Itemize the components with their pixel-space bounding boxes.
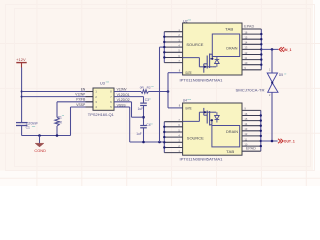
pin 1 U2 (164, 31, 182, 33)
svg-text:DRAIN: DRAIN (226, 130, 239, 134)
wire upper source bus (163, 32, 165, 63)
wire R2 to gate node (149, 91, 169, 93)
pin 2 U4 (164, 147, 182, 149)
wire common source vertical (160, 46, 165, 48)
svg-text:TAB: TAB (226, 150, 235, 154)
pin 5 U4 (164, 131, 182, 133)
wire V12NP (22, 96, 93, 98)
ground CGND (38, 134, 41, 137)
wire pin7 (114, 96, 144, 98)
svg-text:1uF: 1uF (138, 107, 144, 111)
pin 11 U2 (242, 59, 261, 61)
pin 12 U4 (242, 135, 261, 137)
pin 15 U4 (242, 120, 261, 122)
pin 7 U4 (164, 121, 182, 123)
mosfet glyph U2 (206, 56, 208, 69)
pin 16 U2 (242, 33, 261, 35)
svg-text:TPS2H160-Q1: TPS2H160-Q1 (88, 113, 114, 117)
pin 14 U2 (242, 43, 261, 45)
pin 16 U4 (242, 115, 261, 117)
drain plate U4 (212, 126, 240, 147)
pin 1 U4 (164, 152, 182, 154)
svg-text:DRAIN: DRAIN (226, 46, 238, 50)
wire pin6 (114, 101, 132, 103)
svg-text:TAB: TAB (225, 28, 234, 32)
svg-text:EPAD: EPAD (246, 147, 257, 151)
pin 9 U4 (242, 109, 261, 111)
resistor R1 20K (56, 102, 58, 118)
wire TVS top (271, 49, 273, 73)
svg-text:SOURCE: SOURCE (186, 43, 204, 47)
sheet border (6, 5, 315, 171)
pin 7 U2 (164, 62, 182, 64)
wire PXFB (57, 101, 93, 103)
op-amp U3 (TPS2H160-Q1 switch) (93, 88, 114, 110)
wire upper drain bus (260, 29, 262, 70)
wire lower source bus (163, 122, 165, 153)
wire ground rail (22, 135, 71, 137)
node C3/C4 (142, 116, 145, 119)
svg-text:+12V: +12V (16, 58, 26, 62)
pin 10 U4 (242, 145, 261, 147)
pin 4 U4 (164, 136, 182, 138)
mosfet glyph U4 (206, 111, 208, 124)
transistor U2 (IPT011N06NM5 upper) (183, 23, 242, 75)
wire VSSP (71, 106, 94, 108)
pin 6 U4 (164, 126, 182, 128)
svg-text:GATE: GATE (185, 71, 192, 75)
pin 2 U2 (164, 36, 182, 38)
svg-text:PXFB: PXFB (76, 98, 86, 102)
wire EN (22, 91, 93, 93)
pin 4 U3 (86, 106, 94, 108)
node pin2 tap (21, 96, 23, 98)
resistor R2 0R (141, 90, 149, 94)
svg-text:IPT011N06NM5ATMA1: IPT011N06NM5ATMA1 (180, 79, 223, 83)
port OUT_1 (278, 139, 283, 144)
pin 13 U4 (242, 130, 261, 132)
pin 1 U3 (86, 91, 94, 93)
wire OUT_1 (261, 140, 278, 142)
pin 12 U2 (242, 54, 261, 56)
svg-text:C1: C1 (26, 125, 30, 129)
sheet background (0, 0, 320, 186)
wire TVS bottom (271, 92, 273, 141)
grid (decorative) (0, 0, 320, 186)
port IN_1 (279, 47, 284, 52)
svg-text:U3: U3 (100, 82, 105, 86)
wire IN_1 (261, 48, 278, 50)
wire +12V drop (21, 68, 23, 123)
capacitor C3 1uF (140, 102, 147, 104)
svg-text:SOURCE: SOURCE (187, 136, 205, 140)
svg-text:VSSP: VSSP (76, 103, 86, 107)
svg-text:IPT011N06NM5ATMA1: IPT011N06NM5ATMA1 (180, 158, 223, 162)
svg-text:V12NP: V12NP (75, 92, 86, 96)
wire lower drain bus (260, 110, 262, 151)
pin 9 U2 (242, 69, 261, 71)
pin 4 U2 (164, 46, 182, 48)
drain plate U2 (212, 34, 239, 57)
wire gate vertical (167, 73, 169, 108)
svg-text:D5: D5 (279, 73, 283, 77)
svg-text:GATE: GATE (185, 106, 192, 110)
svg-text:CGND: CGND (34, 149, 46, 153)
pin 15 U2 (242, 38, 261, 40)
capacitor C1 220nF (16, 122, 27, 124)
wire +12V vertical (21, 63, 23, 68)
svg-text:1uF: 1uF (136, 132, 142, 136)
pin 3 U2 (164, 41, 182, 43)
pin 6 U2 (164, 57, 182, 59)
pin 2 U3 (86, 96, 94, 98)
wire pin8 to R2 (114, 91, 141, 93)
pin 3 U4 (164, 141, 182, 143)
pin 11 U4 (242, 140, 261, 142)
svg-text:R2: R2 (147, 85, 151, 89)
svg-text:IN_1: IN_1 (284, 48, 292, 52)
node TVS top tap (271, 48, 274, 51)
svg-text:OUT_1: OUT_1 (284, 140, 295, 144)
transistor U4 (IPT011N06NM5 lower) (183, 103, 242, 155)
svg-text:20K: 20K (56, 121, 63, 125)
svg-text:EPAD: EPAD (244, 25, 255, 29)
capacitor C4 1uF (140, 125, 147, 127)
node TVS bottom tap (271, 140, 274, 143)
pin 14 U4 (242, 125, 261, 127)
diode D2 SMCJ70CA-TR (bidirectional TVS) (267, 73, 278, 92)
node EN tap (21, 91, 23, 93)
pin 5 U2 (164, 51, 182, 53)
pin 13 U2 (242, 48, 261, 50)
wire pin5 (114, 106, 130, 108)
pin 3 U3 (86, 101, 94, 103)
svg-text:EN: EN (81, 87, 86, 91)
node gate junction (167, 90, 170, 93)
svg-text:SMCJ70CA-TR: SMCJ70CA-TR (236, 88, 266, 92)
wire source rail (130, 141, 165, 143)
pin 10 U2 (242, 64, 261, 66)
